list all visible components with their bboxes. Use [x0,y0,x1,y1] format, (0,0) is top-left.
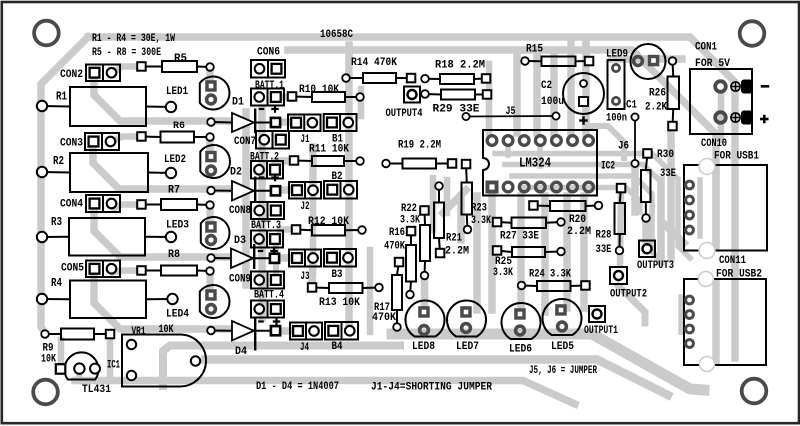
svg-text:R28: R28 [596,230,612,242]
LED LED2 [200,145,230,178]
LM324 pin bottom 1 [486,181,499,194]
wire BATT3 to CON9 vertical [273,244,279,274]
svg-text:C1: C1 [626,100,637,112]
svg-text:BATT.3: BATT.3 [251,220,281,232]
resistor R12 [296,229,312,232]
wire LM324 to LED7 vertical [473,196,481,310]
LED LED5 [543,299,582,335]
resistor R21 [438,186,440,203]
svg-text:R1 - R4 = 30E, 1W: R1 - R4 = 30E, 1W [92,33,175,45]
wire stub under pin4 [537,147,543,166]
svg-text:VR1: VR1 [132,326,146,338]
svg-text:3.3K: 3.3K [471,215,491,227]
svg-text:R10 10K: R10 10K [299,84,339,96]
connector CON4 [86,195,120,212]
wire right cluster vertical 2 [667,131,675,258]
resistor R18 [425,78,440,80]
wire LM324 bottom v1 [488,196,496,310]
svg-text:J5, J6 = JUMPER: J5, J6 = JUMPER [529,365,597,377]
wire R28 to OUTPUT2 stub [620,192,621,264]
connector BATT.3 [251,231,283,248]
svg-text:R13 10K: R13 10K [319,297,360,309]
svg-text:CON10: CON10 [701,138,727,150]
svg-text:LED4: LED4 [166,309,189,321]
mounting hole bottom-right [742,379,767,404]
svg-text:OUTPUT4: OUTPUT4 [386,108,423,120]
wire LED row band [392,334,704,390]
wire D3 to J3 [276,254,294,262]
diode D4 [211,330,232,332]
svg-text:R22: R22 [401,203,417,215]
svg-text:FOR USB2: FOR USB2 [716,269,762,281]
svg-text:CON7: CON7 [234,136,256,148]
wire R30 to OUTPUT3 stub [642,220,650,240]
svg-text:LED5: LED5 [551,341,574,353]
connector CON10 USB1 [684,165,767,251]
wire BATT1 to R10 [276,93,292,101]
connector header J4 [290,323,322,340]
svg-text:LED9: LED9 [606,49,628,61]
wire LM324 bottom v2 [517,196,525,312]
connector header J1 [288,115,321,132]
wire LM324 bottom v3 [541,196,549,312]
svg-text:R16: R16 [389,227,405,239]
svg-text:LM324: LM324 [519,156,551,172]
svg-text:LED3: LED3 [166,220,189,232]
wire J6 down [631,167,639,212]
svg-text:J5: J5 [506,106,516,118]
svg-text:B2: B2 [332,171,343,183]
LM324 pin top 1 [487,136,497,146]
wire vertical to LM324 pin top2 [533,53,541,133]
pad OUTPUT3 [639,241,655,258]
wire R5 pad stub [114,67,141,73]
svg-text:BATT.1: BATT.1 [255,80,284,92]
diode D1 [211,121,232,124]
svg-text:J1-J4=SHORTING JUMPER: J1-J4=SHORTING JUMPER [371,382,492,394]
wire LM324 to USB fan 4 [522,188,640,213]
wire usb1 inner vertical [712,168,720,248]
resistor R27 [497,221,512,224]
svg-text:R11 10K: R11 10K [309,144,349,156]
svg-text:R7: R7 [168,185,180,197]
LM324 pin top 5 [552,136,562,146]
wire bottom band 2 [205,360,668,396]
diode D2 [211,190,232,192]
resistor R23 [465,164,468,183]
resistor R2 [42,171,70,174]
wire vertical to LM324 pin top1 [513,53,521,133]
svg-text:R26: R26 [649,88,666,100]
connector CON8 [251,202,284,219]
wire diag R21 area [443,190,466,213]
svg-text:100u: 100u [541,96,564,108]
wire mid vertical to R10 [358,89,365,116]
svg-text:R27 33E: R27 33E [500,231,539,243]
wire R5 stub [206,67,214,87]
svg-text:R5: R5 [174,53,187,65]
pad OUTPUT2 [610,267,627,284]
jumper J6 [634,117,636,164]
connector header J2 [289,182,321,199]
wire LM324 to USB fan 3 [512,176,660,260]
op-amp IC U2 LM324 [483,130,597,196]
connector header B2 [324,181,357,199]
svg-text:D1: D1 [232,97,244,109]
wire R7 pad stub [114,205,141,209]
LED LED7 [447,301,486,337]
connector CON6 [251,60,285,78]
wire vertical to LM324 pin top3 [550,53,558,133]
wire LM324 to USB fan 2 [505,165,661,183]
connector CON1 terminal block [690,69,752,134]
resistor R20 [534,205,551,208]
resistor R19 [386,163,403,165]
wire R22 donut to LED8 [421,278,429,310]
wire CON1 lower terminal feed [718,95,725,140]
wire D4 to J4 [277,327,295,335]
wire CON5 to D4 [94,273,230,329]
resistor R1 [42,105,70,108]
svg-text:J3: J3 [301,271,310,283]
LED LED4 [200,285,230,318]
pad OUTPUT4 [404,87,420,103]
svg-text:R24 3.3K: R24 3.3K [529,269,571,281]
wire top horizontal bus [88,37,735,358]
wire vertical to LM324 pin top5 [582,40,590,133]
resistor R5 [142,66,163,68]
wire USB2 interior hook [678,297,684,332]
svg-text:R12 10K: R12 10K [308,216,349,228]
wire R8 stub [206,271,214,294]
wire R9 pad down [107,338,114,380]
label C2 plus [579,119,588,121]
wire R6 stub [206,137,214,156]
svg-text:CON8: CON8 [229,205,251,217]
wire vertical through R18 R29 pads [486,64,493,133]
svg-text:BATT.4: BATT.4 [254,290,284,302]
svg-text:470K: 470K [384,241,405,253]
wire BATT3 to R12 [280,226,294,233]
connector CON2 [86,65,120,82]
connector header B3 [324,249,356,267]
LM324 pin top 4 [536,136,546,146]
IC1 TL431 package [65,352,99,379]
svg-text:BATT.2: BATT.2 [250,152,279,164]
diode D3 [211,257,231,259]
wire CON4 to D3 [94,207,230,257]
connector header B1 [324,114,357,131]
svg-text:TL431: TL431 [82,384,111,396]
wire CON3 to D2 [93,145,230,189]
svg-text:3.3K: 3.3K [400,215,420,227]
svg-text:2.2M: 2.2M [567,226,591,238]
resistor R15 [525,60,542,62]
mounting hole top-right [740,21,765,46]
jumper J5 [466,115,556,118]
svg-text:R2: R2 [53,155,64,168]
svg-text:LED1: LED1 [166,86,188,98]
wire R8 pad stub [114,271,141,273]
connector CON3 [85,133,119,150]
resistor R9 [45,333,61,335]
svg-text:33E: 33E [596,244,612,256]
resistor R7 [142,204,162,206]
wire LED9 horizontal [612,55,682,63]
wire D2 to J2 [277,186,294,194]
CON1 terminal 1 [715,81,726,92]
wire LM324 bottom v4 [563,196,571,308]
svg-text:B3: B3 [332,269,343,281]
svg-text:CON5: CON5 [61,263,84,275]
LED LED8 [406,301,445,337]
resistor R13 [312,287,329,290]
LM324 pin bottom 7 [584,182,594,192]
pad OUTPUT1 [589,306,605,322]
svg-text:2.2K: 2.2K [645,102,667,114]
capacitor C1 [608,60,625,109]
wire USB1 interior vertical [697,180,703,236]
svg-text:D3: D3 [234,235,246,247]
connector header J3 [289,250,321,267]
wire vertical to LM324 pin top4 [567,40,575,133]
wire vertical D column [242,112,250,285]
CON1 terminal 2 [715,112,726,123]
wire LM324 to USB fan 1 [495,154,690,259]
svg-text:OUTPUT2: OUTPUT2 [610,289,647,301]
mounting hole top-left [34,21,59,46]
connector CON9 [251,272,284,289]
svg-text:R4: R4 [51,277,62,290]
LM324 pin top 3 [519,136,529,146]
wire D1 to J1 [277,118,294,126]
LM324 pin bottom 3 [519,182,529,192]
connector BATT.2 [251,161,283,179]
wire second horizontal bus [288,50,716,240]
LM324 pin bottom 5 [552,182,562,192]
svg-text:CON1: CON1 [695,42,717,54]
svg-text:33E: 33E [660,168,676,180]
svg-text:CON11: CON11 [719,255,746,267]
wire vertical left of R21 [430,178,437,230]
wire vertical between CON7 column [258,108,266,318]
svg-text:C2: C2 [541,80,552,92]
resistor R26 [672,61,675,77]
wire LM324 bottom v5 [580,196,588,308]
svg-text:R6: R6 [173,121,185,132]
svg-text:CON9: CON9 [229,274,251,286]
svg-text:D1 - D4 = 1N4007: D1 - D4 = 1N4007 [256,381,339,393]
resistor R28 [620,188,621,203]
LED LED9 [631,44,666,79]
svg-text:R15: R15 [526,44,543,56]
svg-text:B4: B4 [332,341,343,353]
LM324 pin bottom 4 [536,182,546,192]
wire OUTPUT2 down diagonal [619,286,646,323]
resistor R24 [522,285,538,288]
wire C1 area diagonal [592,126,624,158]
connector BATT.1 [251,89,284,106]
resistor R4 [42,298,70,300]
svg-text:IC2: IC2 [601,161,615,173]
connector CON11 USB2 [684,279,766,365]
connector header B4 [325,322,358,340]
wire J2 to J3 vertical [310,195,317,256]
svg-text:R3: R3 [51,216,62,229]
label CON1 minus [761,85,770,88]
wire J3 to R13 vertical [312,262,313,286]
wire usb diag [662,222,684,243]
wire J1 to J2 vertical [309,147,317,186]
LM324 pin top 6 [568,136,578,146]
wire BATT2 to R11 [275,157,294,165]
svg-text:R14 470K: R14 470K [351,57,397,69]
svg-text:J4: J4 [300,342,309,354]
svg-text:R8: R8 [168,249,180,261]
svg-text:J2: J2 [301,201,310,213]
potentiometer VR1 [122,335,206,387]
LM324 pin bottom 6 [568,182,578,192]
svg-text:FOR 5V: FOR 5V [695,58,730,70]
svg-text:100n: 100n [606,113,627,125]
resistor R14 [346,77,363,79]
svg-text:R29 33E: R29 33E [433,104,480,116]
wire bottom band 3 [75,381,575,405]
svg-text:OUTPUT1: OUTPUT1 [584,325,618,337]
connector CON5 [86,261,120,278]
resistor R10 [292,96,312,99]
svg-text:R19 2.2M: R19 2.2M [398,140,441,152]
wire LM324 to LED8 vertical [457,196,465,240]
resistor R29 [425,93,441,96]
resistor R17 [397,262,399,275]
LM324 pin top 2 [503,136,513,146]
wire CON2 to D1 [94,77,230,121]
svg-text:J6: J6 [618,141,629,153]
svg-text:10K: 10K [41,354,56,366]
svg-text:R23: R23 [471,203,487,215]
resistor R22 [424,211,427,226]
svg-text:CON3: CON3 [60,138,83,150]
svg-text:CON2: CON2 [60,69,83,81]
wire stub under pin2 [505,147,511,155]
wire vertical right of R17 [367,250,374,332]
wire R6 pad stub [113,137,141,142]
connector CON7 [256,131,289,149]
svg-text:3.3K: 3.3K [493,267,513,279]
svg-text:D4: D4 [235,346,247,358]
svg-text:LED7: LED7 [456,341,479,353]
LM324 pin top 7 [584,136,594,146]
svg-text:470K: 470K [372,312,396,324]
wire IC1 pad 2 down [76,370,82,380]
capacitor C2 [563,73,604,114]
connector BATT.4 [251,301,284,318]
resistor R8 [142,270,162,272]
svg-text:R18 2.2M: R18 2.2M [435,60,485,72]
svg-text:2.2M: 2.2M [445,246,469,258]
svg-text:LED6: LED6 [509,344,532,356]
wire left vertical bus [41,37,88,333]
resistor R30 [646,154,648,171]
svg-text:R20: R20 [569,214,586,226]
wire to IC1 pad 1 [58,340,65,366]
wire right cluster vertical 1 [657,180,665,262]
resistor R6 [142,136,161,139]
resistor R16 [410,231,412,245]
svg-text:LED8: LED8 [412,341,435,353]
svg-text:D2: D2 [230,167,242,179]
wire mid vertical behind headers [345,45,353,331]
svg-text:R1: R1 [56,90,67,103]
svg-text:10658C: 10658C [320,29,353,41]
wire bottom band 1 [163,346,400,387]
svg-text:IC1: IC1 [107,360,120,372]
svg-text:R21: R21 [446,233,462,245]
wire R7 stub [206,205,214,226]
wire vertical right of R21 [444,180,451,213]
svg-text:R30: R30 [657,149,674,161]
svg-text:OUTPUT3: OUTPUT3 [637,260,674,272]
svg-text:FOR USB1: FOR USB1 [714,151,759,163]
resistor R11 [294,160,312,163]
svg-text:LED2: LED2 [164,154,186,166]
LM324 pin bottom 2 [503,182,513,192]
resistor R25 [497,251,512,253]
label CON1 plus [760,118,769,121]
svg-text:10K: 10K [159,324,174,336]
LED LED3 [201,217,230,249]
svg-text:CON6: CON6 [257,47,280,59]
wire usb2 inner vertical [712,282,720,362]
mounting hole bottom-left [33,380,58,405]
resistor R3 [42,236,69,238]
svg-text:R5 - R8 = 300E: R5 - R8 = 300E [92,47,161,59]
LED LED6 [502,303,541,339]
LED LED1 [200,77,230,110]
svg-text:CON4: CON4 [60,199,83,211]
